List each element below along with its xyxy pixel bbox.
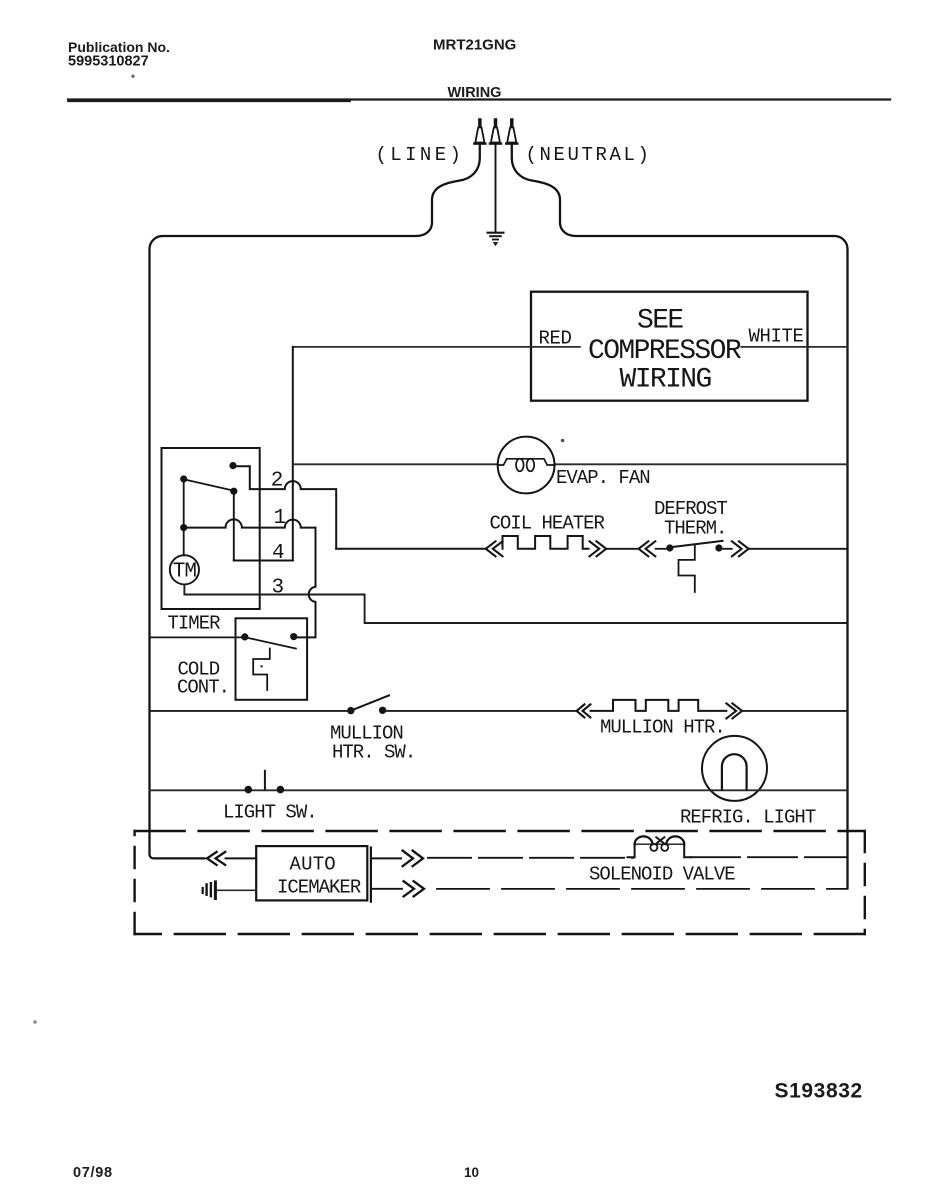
stray mark	[561, 439, 565, 443]
svg-text:1: 1	[274, 507, 287, 530]
svg-text:COMPRESSOR: COMPRESSOR	[588, 336, 742, 367]
connector chevrons left (defrost)	[639, 541, 656, 556]
svg-text:EVAP. FAN: EVAP. FAN	[556, 467, 650, 489]
svg-text:5995310827: 5995310827	[68, 54, 149, 70]
defrost contact left	[666, 544, 673, 551]
wire evaporator fan line	[293, 463, 848, 465]
svg-text:(LINE): (LINE)	[376, 144, 465, 166]
dashed enclosure bottom	[135, 933, 865, 935]
plug prong right	[506, 119, 517, 144]
wire white	[741, 346, 847, 348]
stray ink mark	[131, 75, 134, 78]
connector chevrons output 2	[404, 881, 424, 896]
header publication text	[68, 39, 170, 70]
wire ground prong	[495, 144, 497, 231]
cold control staircase	[253, 649, 270, 691]
wire defrost to right bus	[749, 548, 848, 550]
svg-text:SOLENOID VALVE: SOLENOID VALVE	[589, 864, 735, 886]
wire dashed output 2 to right bus	[437, 888, 848, 890]
connector chevrons right (coil heater)	[590, 541, 607, 556]
svg-text:CONT.: CONT.	[177, 677, 229, 699]
timer motor TM	[170, 555, 199, 584]
wire light line	[150, 789, 848, 791]
defrost sensor staircase	[679, 545, 695, 592]
wire pin1 line to cold control	[184, 519, 316, 637]
svg-text:WIRING: WIRING	[620, 365, 712, 396]
cold contact right	[290, 633, 297, 640]
wire contact A to coil heater feed	[233, 466, 336, 549]
connector chevrons right (defrost)	[732, 541, 749, 556]
timer box	[162, 448, 260, 609]
wire red vertical drop	[292, 347, 294, 561]
cold control wiper	[247, 638, 296, 649]
wire to defrost contact	[656, 548, 666, 550]
lamp refrig light	[702, 736, 767, 801]
defrost contact right	[715, 544, 722, 551]
timer contact A	[229, 462, 236, 469]
connector chevrons right (mullion)	[726, 703, 742, 718]
wire mullion line middle	[386, 710, 576, 712]
svg-text:(NEUTRAL): (NEUTRAL)	[526, 144, 652, 166]
svg-text:WHITE: WHITE	[749, 326, 804, 348]
wire red	[293, 346, 580, 348]
wire coil heater line	[336, 548, 485, 550]
ground symbol	[488, 233, 504, 246]
box SEE COMPRESSOR WIRING	[531, 292, 808, 401]
svg-text:LIGHT SW.: LIGHT SW.	[223, 802, 317, 824]
mullion switch contact right	[379, 707, 386, 714]
icemaker ground	[203, 882, 216, 899]
wire mullion switch line left	[150, 710, 348, 712]
stray mark bottom left	[33, 1020, 37, 1024]
svg-text:REFRIG. LIGHT: REFRIG. LIGHT	[680, 807, 816, 829]
wire ground to icemaker box	[217, 889, 257, 891]
mullion switch wiper	[354, 695, 390, 709]
svg-text:07/98: 07/98	[73, 1165, 113, 1181]
svg-text:COIL HEATER: COIL HEATER	[490, 513, 605, 535]
light switch contact left	[245, 786, 253, 794]
wire line bus (left prong to left bus to icemaker feed)	[150, 144, 480, 858]
wire neutral bus (right prong to right bus)	[512, 144, 848, 888]
wire pin4	[234, 560, 293, 562]
svg-text:4: 4	[272, 542, 285, 565]
svg-text:3: 3	[272, 577, 285, 600]
solenoid valve coil	[628, 836, 692, 857]
plug prong middle	[490, 119, 501, 144]
svg-text:S193832: S193832	[775, 1080, 863, 1103]
wire pin3 from TM to right bus	[184, 584, 847, 623]
icemaker box shadow edge	[370, 848, 372, 902]
light switch contact right	[277, 786, 285, 794]
svg-text:TM: TM	[173, 561, 197, 584]
svg-text:SEE: SEE	[637, 306, 683, 337]
wire mullion to right bus	[742, 710, 847, 712]
timer contact C	[230, 488, 237, 495]
cold control box	[236, 618, 308, 700]
wire dashed output 1 to solenoid	[428, 857, 633, 859]
wire defrost to chevrons	[722, 548, 731, 550]
wire C down to pin4 line	[233, 491, 235, 560]
timer contact B	[180, 475, 187, 482]
plug prong left	[474, 119, 485, 144]
connector chevrons output 1	[403, 851, 423, 867]
connector chevrons left (coil heater)	[486, 541, 503, 556]
wire to defrost therm	[606, 548, 638, 550]
svg-text:ICEMAKER: ICEMAKER	[277, 877, 361, 899]
dashed enclosure left	[133, 831, 135, 934]
svg-text:2: 2	[271, 470, 284, 493]
svg-text:HTR. SW.: HTR. SW.	[332, 742, 415, 764]
header rule	[68, 98, 890, 100]
resistor mullion heater	[591, 700, 727, 711]
svg-text:MRT21GNG: MRT21GNG	[433, 37, 516, 54]
svg-text:MULLION HTR.: MULLION HTR.	[600, 717, 725, 739]
svg-text:10: 10	[464, 1165, 479, 1180]
wire cold control feed	[150, 636, 242, 638]
motor evap fan	[498, 437, 555, 494]
connector chevrons left (mullion)	[577, 704, 591, 717]
timer wiper B-C	[186, 480, 234, 491]
connector chevrons into icemaker	[207, 852, 225, 865]
defrost wiper	[673, 541, 723, 547]
lamp filament	[722, 754, 747, 790]
timer contact D	[180, 524, 187, 531]
svg-text:AUTO: AUTO	[290, 854, 336, 876]
mullion switch contact left	[347, 707, 354, 714]
wire chevron to icemaker box	[226, 857, 257, 859]
wire icemaker output 2	[372, 888, 402, 890]
dashed enclosure top	[135, 830, 865, 832]
wire icemaker output 1	[372, 857, 401, 859]
wire solenoid to right bus	[691, 856, 848, 858]
svg-text:TIMER: TIMER	[168, 613, 221, 635]
cold contact left	[241, 633, 248, 640]
dashed enclosure right	[864, 831, 866, 934]
svg-text:THERM.: THERM.	[664, 518, 726, 540]
resistor coil heater	[503, 536, 589, 549]
light switch bar	[264, 771, 266, 790]
box auto icemaker	[256, 846, 367, 900]
wire B down to TM	[183, 479, 185, 555]
